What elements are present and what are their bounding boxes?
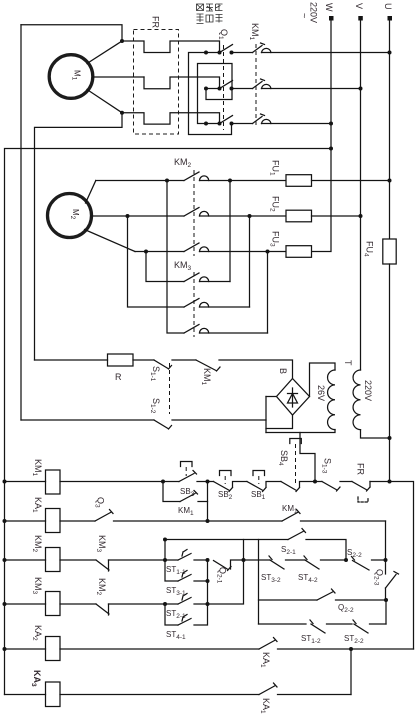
fuse FU2 [269, 196, 312, 222]
coil KA2 [31, 625, 60, 661]
node B lower [206, 519, 210, 523]
node KA2 row junction [349, 647, 353, 651]
wire KA1 row left [5, 520, 46, 522]
linkage S1 dashed [169, 363, 171, 414]
fuse FU1 [269, 160, 312, 186]
coil KA1 [31, 497, 60, 533]
svg-text:26V: 26V [316, 385, 326, 401]
coil KM2 [31, 535, 60, 572]
limit switch ST2-1 [165, 594, 208, 621]
node V-FU2 junction [359, 214, 363, 218]
wire M1 top terminal to node [87, 41, 122, 64]
svg-text:R: R [115, 372, 122, 382]
contactor KM1 main contacts [232, 23, 390, 128]
FR heater element 1 [122, 41, 220, 53]
wire KM3 row1 right riser [229, 181, 231, 282]
pushbutton SB1 [247, 471, 281, 502]
node V terminal [354, 3, 364, 21]
node B upper [206, 480, 210, 484]
switch Q2-2 [317, 589, 386, 614]
node Q2-3 top [384, 558, 388, 562]
label forward stop reverse (chinese) [197, 4, 223, 24]
wire KM3 coil out [60, 603, 96, 605]
svg-text:U: U [383, 3, 393, 10]
wire M1 top loop to left bus [21, 25, 122, 41]
wire M1 bottom loop to R branch [35, 113, 123, 360]
contact KA1 a [259, 638, 414, 669]
wire KM1 brake to bridge top [219, 360, 293, 379]
node M2 bottom junction [144, 250, 148, 254]
wire bridge AC left vertical [265, 397, 267, 433]
wire ST row to Q2-2 node [385, 600, 387, 624]
motor M1 [49, 55, 93, 99]
wire R to S1-1 [133, 359, 154, 361]
contact KA1 b [259, 683, 351, 714]
node S2-2 left [344, 558, 348, 562]
node W terminal [324, 3, 334, 21]
wire A4 riser to S2-1 row [243, 540, 245, 561]
node U-row1 junction [388, 51, 392, 55]
limit switch ST3-1 [165, 560, 208, 597]
wire S2-1 row [165, 539, 288, 541]
svg-text:W: W [324, 3, 334, 12]
wire KM1 coil to node A [60, 481, 163, 483]
limit switch ST4-1 [165, 581, 208, 641]
limit switch ST1-2 NC [301, 620, 352, 645]
wire KM1 coil row [5, 481, 46, 483]
wire KM2 coil out [60, 559, 96, 561]
node rail-KM3 [3, 602, 7, 606]
contact KM3 interlock NC [95, 535, 165, 571]
pushbutton SB4 [277, 439, 315, 492]
wire KA3 row left [5, 694, 46, 696]
wire latch row drop [385, 521, 387, 560]
contact KM1 latch right [208, 504, 386, 521]
switch S1-1 [149, 360, 172, 382]
node A6 [206, 602, 210, 606]
wire M1 bottom terminal to node [87, 90, 122, 113]
node ST3-1 join [206, 579, 210, 583]
contact KM2 interlock NC [95, 578, 165, 615]
svg-text:B: B [278, 368, 288, 374]
wire M2 row3 [135, 251, 184, 253]
wire KM3 row2 left feed [128, 216, 185, 307]
wire KM2 row left [5, 559, 46, 561]
node W control tap [329, 147, 333, 151]
wire bridge right vertex to secondary top [310, 363, 336, 397]
svg-text:220V: 220V [363, 380, 373, 401]
wire DC tap riser [300, 433, 315, 482]
wire Q1 crossover row2-right to row3-left [198, 64, 233, 124]
node control feed [388, 480, 392, 484]
resistor R [108, 354, 134, 382]
fuse FU4 [363, 239, 397, 264]
switch Q2-3 [373, 560, 399, 600]
wire control right rail [390, 482, 414, 650]
FR heater element 2 [144, 77, 220, 89]
wire KA2 row left [5, 648, 46, 650]
contactor KM2 main contacts [174, 157, 286, 256]
wire Q1 crossover row1-left to row3-right [189, 53, 232, 135]
transformer T primary 220V [343, 360, 373, 430]
coil KA3 [30, 670, 60, 707]
switch S2-2 NC [347, 548, 386, 570]
pushbutton SB3 [163, 462, 208, 499]
wire primary bottom to U branch [361, 430, 390, 438]
wire M2 bottom terminal [85, 230, 136, 252]
switch Q2-1 NC [214, 560, 244, 584]
wire ST row left [259, 623, 307, 625]
transformer T secondary 26V [316, 370, 335, 430]
wire node B riser [207, 482, 209, 522]
wire KA3 row mid [60, 694, 259, 696]
wire KA2 row mid [60, 648, 259, 650]
node A5 [163, 602, 167, 606]
wire U rail lower [389, 264, 391, 482]
wire row to ST3-2 [244, 559, 271, 561]
wire KM3 row1 left feed [146, 252, 184, 282]
wire S1-2 to AC node [172, 419, 266, 421]
node U-FU1 junction [388, 179, 392, 183]
wire secondary bottom lead [266, 430, 335, 433]
svg-text:T: T [343, 360, 353, 366]
thermal relay FR box [134, 16, 179, 134]
node M1-W junction [120, 111, 124, 115]
wire M2 top terminal [86, 181, 96, 204]
wire S1-2 row [21, 419, 154, 421]
contact KM1 braking [196, 360, 220, 386]
svg-text:FR: FR [151, 16, 161, 28]
wire W phase to control left rail [5, 149, 332, 695]
node U-transformer junction [388, 436, 392, 440]
switch S1-3 [315, 458, 352, 491]
svg-text:V: V [354, 3, 364, 9]
node rail-KA1 [3, 519, 7, 523]
node V-row2 junction [359, 87, 363, 91]
node W-row3 junction [329, 122, 333, 126]
node U terminal [383, 3, 393, 21]
wire Q2-2 row [259, 599, 318, 601]
wire KM3 row3 left feed [167, 181, 184, 334]
switch S1-2 [149, 398, 172, 429]
wire bridge bottom vertex lead [266, 415, 293, 429]
wire S1-1 to KM1 brake contact [172, 359, 196, 361]
wire V rail [360, 18, 362, 370]
rectifier B bridge [277, 368, 310, 415]
node Q2-2 right [384, 598, 388, 602]
wire FU1 to U rail [312, 180, 390, 182]
wire left vertical bus to S1-2 row [20, 25, 22, 420]
node rail-KA2 [3, 647, 7, 651]
wire M2 row1 [96, 180, 184, 182]
node DC tap [313, 480, 317, 484]
node A3 [206, 558, 210, 562]
wire R row left [35, 359, 108, 361]
wire W rail [312, 18, 332, 252]
svg-text:~: ~ [300, 13, 310, 18]
node KM2 row2 tap [248, 214, 252, 218]
node A2 [163, 558, 167, 562]
limit switch ST1-1 [165, 550, 208, 577]
contactor KM3 main contacts [174, 260, 268, 337]
coil KM1 [31, 459, 60, 494]
node A4 [242, 558, 246, 562]
switch Q3 [60, 497, 208, 521]
node rail-KM1 [3, 480, 7, 484]
node M1-U junction [120, 39, 124, 43]
coil KM3 [31, 577, 60, 616]
wire S2-1 branch riser [164, 540, 166, 561]
wire FU2 to V rail [312, 215, 361, 217]
wire M2 middle terminal row2 [92, 215, 185, 217]
wire KA3 row riser [350, 649, 352, 695]
node KM2 row3 tap [266, 250, 270, 254]
node M2 top junction [165, 179, 169, 183]
wire KM3 row2 right riser [249, 216, 251, 307]
wire bridge left vertex lead [266, 396, 277, 398]
node S2-1 corner [163, 538, 167, 542]
wire U rail upper [389, 18, 391, 239]
wire M1 middle terminal [93, 76, 145, 78]
limit switch ST2-2 NC [344, 620, 386, 645]
limit switch ST4-2 NC [298, 556, 346, 584]
switch Q1 [204, 29, 234, 130]
node rail-KM2 [3, 558, 7, 562]
wire S2-1 mid drop [258, 540, 260, 625]
wire KM3 row to riser [208, 560, 244, 604]
node M2 mid junction [126, 214, 130, 218]
switch S2-1 [281, 529, 346, 561]
wire KM3 row3 right riser [267, 252, 269, 334]
label ~220V supply [300, 2, 319, 23]
wire KM3 row left [5, 603, 46, 605]
motor M2 [48, 194, 92, 238]
node A latch left [161, 480, 165, 484]
limit switch ST3-2 NC [261, 556, 305, 584]
pushbutton SB2 [208, 471, 248, 502]
fuse FU3 [269, 231, 312, 257]
FR heater element 3 [122, 113, 220, 124]
node KM2 row1 tap [228, 179, 232, 183]
contact FR thermal NC [352, 463, 390, 502]
wire Q1 row2 jumper loop [206, 89, 232, 100]
contact KM1 self-latch lower [163, 482, 208, 518]
svg-text:FR: FR [356, 463, 366, 475]
